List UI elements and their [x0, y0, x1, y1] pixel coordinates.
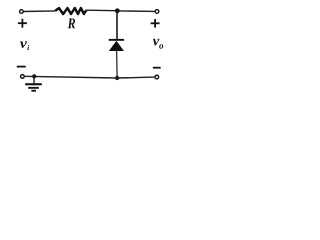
label R — [68, 19, 76, 29]
label vi — [20, 41, 29, 50]
wire node to terminal top-right — [119, 10, 154, 13]
wire node to diode cathode — [116, 11, 118, 40]
label + (left) — [18, 19, 27, 28]
diode D triangle (anode, pointing up) — [109, 41, 124, 51]
junction node top — [115, 8, 120, 13]
label + (right) — [151, 19, 160, 28]
terminal bottom-right — [155, 75, 159, 79]
label - (right) — [153, 67, 161, 69]
label vo — [153, 39, 163, 49]
wire top-left to resistor — [23, 10, 55, 13]
wire diode anode to bottom node — [116, 51, 119, 79]
wire resistor to node — [86, 9, 116, 12]
label - (left) — [17, 66, 26, 68]
bottom wire — [25, 76, 155, 78]
terminal top-right — [155, 10, 159, 14]
terminal top-left — [20, 10, 24, 14]
resistor R — [55, 8, 86, 14]
diode D cathode bar — [109, 39, 124, 41]
ground bar 3 — [31, 90, 36, 92]
terminal bottom-left — [21, 75, 25, 79]
junction node bottom — [115, 76, 119, 80]
ground stub — [33, 76, 35, 83]
junction node at ground — [32, 74, 36, 78]
ground bar 2 — [28, 87, 39, 89]
ground bar 1 — [25, 83, 42, 85]
